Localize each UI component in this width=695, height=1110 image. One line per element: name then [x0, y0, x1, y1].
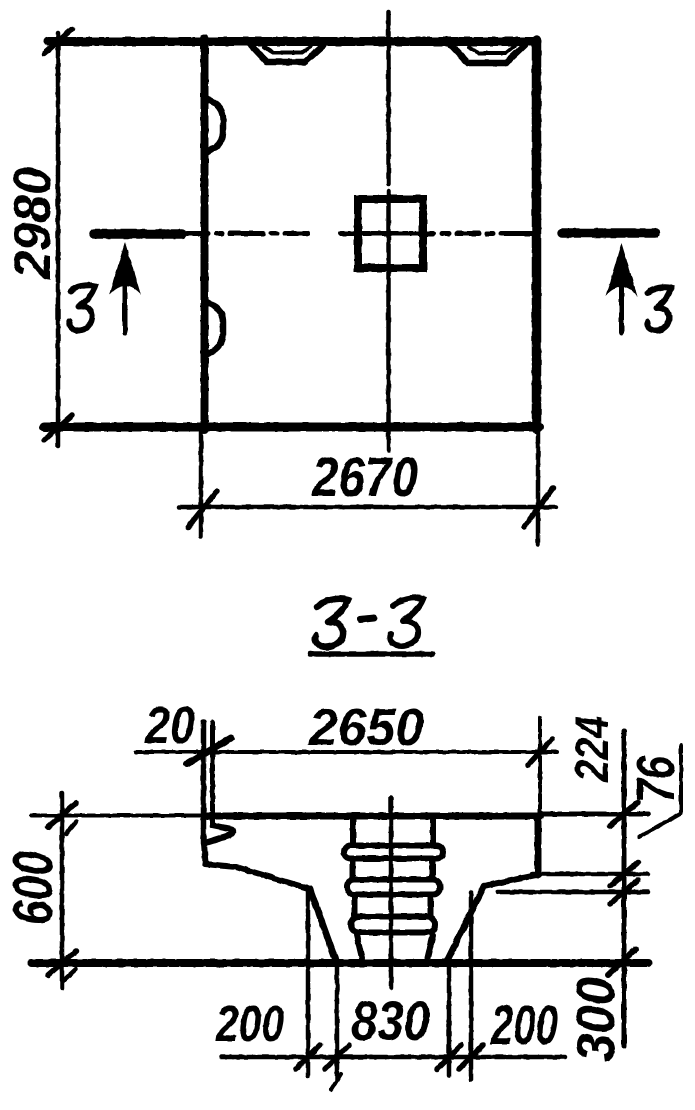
- svg-text:76: 76: [626, 755, 686, 803]
- top-left notch inner: [264, 47, 311, 53]
- lip inner line: [210, 722, 215, 824]
- svg-text:600: 600: [1, 851, 64, 925]
- right extension above: [538, 718, 542, 816]
- section axis: [389, 797, 394, 988]
- section arrow right: [619, 284, 624, 333]
- svg-text:200: 200: [215, 995, 284, 1052]
- right steep slope: [447, 886, 484, 961]
- svg-text:20: 20: [144, 697, 195, 755]
- left gentle slope: [205, 864, 310, 889]
- title underline: [310, 651, 433, 657]
- label 3 right: [647, 287, 671, 330]
- leader 76: [639, 745, 681, 837]
- dimension 2980 vertical line: [56, 33, 61, 446]
- left edge bump notch lower: [206, 301, 223, 355]
- dimension 600 line: [60, 793, 65, 988]
- tick right y814: [610, 802, 638, 826]
- dimension 2650 line: [136, 750, 557, 754]
- tick right y892: [610, 880, 638, 904]
- column rib 3: [351, 917, 435, 933]
- tick x308: [296, 1045, 320, 1069]
- dimension 2670 extension right: [536, 432, 541, 544]
- section arrow left: [123, 284, 128, 333]
- dimension 2670 line: [179, 505, 556, 510]
- slab top line: [31, 814, 204, 818]
- extension below x=473: [469, 892, 474, 1080]
- title 3-3: [315, 599, 348, 647]
- left profile vertical bit: [204, 843, 206, 864]
- column segment 2: [350, 861, 356, 878]
- left edge bump notch upper: [206, 98, 223, 153]
- tick left 2670: [188, 491, 217, 527]
- right ledge ext line lower: [498, 890, 648, 895]
- panel top edge: [48, 37, 537, 46]
- column segment 4: [357, 935, 363, 958]
- section cut line left thick bar: [94, 229, 182, 239]
- panel right edge: [532, 40, 542, 429]
- small slash 600 top: [66, 822, 76, 834]
- panel left edge: [201, 38, 209, 430]
- tick right 2650: [528, 739, 552, 765]
- center square: [358, 199, 423, 268]
- right ledge ext line upper: [532, 872, 648, 877]
- top-right notch outer: [451, 45, 525, 63]
- tick x473: [459, 1045, 483, 1069]
- column segment 1: [350, 816, 356, 844]
- vertical axis line (plan): [386, 12, 391, 184]
- bottom line: [31, 959, 648, 967]
- top-left notch outer: [251, 45, 324, 62]
- svg-text:2670: 2670: [311, 445, 418, 508]
- tick 600 top: [48, 803, 76, 827]
- tick top 2980: [44, 29, 72, 54]
- right dimension line: [622, 731, 627, 1046]
- right edge of slab: [535, 816, 542, 875]
- extension below x=337: [335, 963, 340, 1080]
- svg-text:200: 200: [490, 993, 558, 1056]
- tick right 2670: [524, 488, 553, 527]
- column segment 3: [352, 897, 358, 915]
- lip break bump: [205, 826, 233, 844]
- small slash below: [331, 1074, 341, 1090]
- top-right notch inner: [469, 47, 514, 54]
- small slash 600 bottom: [63, 969, 76, 981]
- tick bottom 2980: [44, 415, 72, 440]
- tick x451: [437, 1045, 461, 1069]
- svg-text:2980: 2980: [4, 167, 62, 280]
- bottom dimension line: [221, 1055, 565, 1060]
- section cut line right thick bar: [562, 228, 655, 238]
- tick right y961: [608, 949, 636, 975]
- tick 600 bottom: [48, 951, 76, 975]
- svg-text:830: 830: [351, 989, 430, 1052]
- left steep slope: [310, 889, 336, 961]
- column rib 1: [344, 846, 443, 859]
- horizontal dash-dot centerline: [187, 231, 208, 236]
- extension below x=451: [447, 963, 452, 1076]
- column rib 2: [347, 880, 440, 895]
- tick right y874: [610, 862, 638, 886]
- svg-text:224: 224: [565, 716, 618, 783]
- panel bottom edge: [44, 423, 539, 432]
- dimension 2670 extension left: [199, 432, 204, 536]
- svg-text:2650: 2650: [308, 699, 424, 757]
- tick left 2650/20: [187, 738, 231, 764]
- extension below x=308: [306, 891, 311, 1076]
- lip outer line: [201, 722, 207, 843]
- label 3 left: [69, 285, 95, 330]
- svg-text:300: 300: [566, 977, 626, 1062]
- right ledge diagonal: [484, 875, 537, 886]
- tick x337: [325, 1045, 349, 1069]
